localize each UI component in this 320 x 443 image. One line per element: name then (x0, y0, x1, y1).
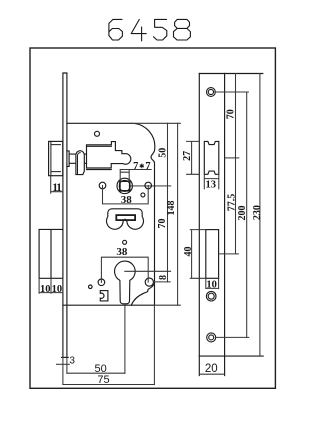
svg-text:10: 10 (40, 284, 51, 295)
svg-text:230: 230 (252, 205, 263, 220)
svg-text:200: 200 (237, 206, 248, 221)
latch bolt head side view (76, 151, 84, 175)
svg-text:70: 70 (157, 219, 168, 229)
latch bolt head bevel line (77, 153, 80, 175)
dim 11 (51, 176, 63, 194)
post above cylinder (123, 240, 127, 244)
euro cylinder profile (115, 261, 136, 304)
latch bolt front view box (49, 141, 63, 175)
svg-text:50: 50 (158, 148, 169, 158)
handle screw hole upper left (99, 182, 106, 189)
spindle hub circles (117, 178, 132, 193)
deadbolt center tick (219, 253, 239, 255)
latch connector stub (67, 151, 87, 167)
dim 20 (199, 373, 224, 375)
dim line 230 (259, 74, 261, 357)
dim 13 (204, 174, 219, 189)
small post right of spindle (141, 193, 145, 197)
hook cutout bottom (100, 291, 108, 301)
svg-text:38: 38 (116, 246, 128, 258)
cylinder centerline tick (125, 270, 171, 272)
cylinder screw hole (206, 291, 216, 301)
latch cutout (204, 141, 219, 174)
latch bolt front view inner lines (51, 141, 61, 175)
svg-text:75: 75 (97, 374, 109, 386)
dim line 200 (246, 92, 248, 337)
case screw post top (95, 131, 100, 136)
faceplate side view (edge bar) (63, 73, 67, 357)
8 dim tick (154, 281, 170, 283)
dim 38 lower (101, 257, 148, 282)
svg-text:10: 10 (206, 280, 217, 291)
svg-text:27: 27 (182, 151, 193, 161)
bottom screw hole (207, 333, 216, 342)
svg-text:38: 38 (121, 194, 133, 206)
spindle centerline (130, 185, 171, 187)
7x7 label line (120, 170, 151, 182)
star of 7x7 label (140, 164, 144, 169)
handle screw hole upper right (145, 182, 152, 189)
dim line 70-77.5 chain (235, 74, 237, 254)
svg-text:8: 8 (158, 275, 169, 280)
svg-text:148: 148 (166, 201, 177, 216)
spring cutout goggles shape (107, 209, 144, 229)
latch bolt arm (87, 142, 131, 168)
drawing frame border (30, 48, 275, 388)
svg-text:70: 70 (226, 109, 237, 119)
svg-text:40: 40 (183, 247, 194, 257)
dim line 50-70-8 chain vertical (167, 123, 169, 282)
dim 3 tick (57, 363, 70, 365)
handle screw hole lower right (145, 278, 153, 286)
left ext lines bottom (63, 304, 154, 385)
deadbolt front view box (39, 229, 63, 278)
top screw hole (207, 88, 216, 97)
latch bolt arm inner lines (87, 146, 112, 169)
bottom screw ext line (215, 336, 248, 338)
dim line 148 vertical (177, 123, 179, 305)
svg-text:20: 20 (205, 363, 218, 375)
svg-text:13: 13 (205, 180, 216, 191)
handle screw hole lower left (98, 279, 105, 286)
svg-text:7: 7 (133, 161, 138, 172)
title 6458 (109, 19, 190, 41)
dim line 50 bottom (67, 372, 125, 374)
top screw ext line (215, 91, 249, 93)
dim ext case top edge to 148 line (132, 122, 181, 124)
svg-text:7: 7 (145, 161, 150, 172)
svg-text:77.5: 77.5 (227, 194, 238, 212)
small post bottom left (89, 285, 93, 289)
dim 27 (187, 141, 200, 174)
spring cutout slot (116, 215, 135, 220)
dim 10 (206, 278, 219, 288)
spindle square hole 7x7 (120, 181, 130, 191)
faceplate front view left edge (198, 74, 200, 376)
svg-text:3: 3 (69, 355, 75, 366)
faceplate bar bottom tick (62, 356, 69, 358)
dim line 75 bottom (63, 384, 154, 386)
latch center tick (225, 157, 239, 159)
case internal bottom-right curve (131, 284, 154, 305)
deadbolt cutout (206, 230, 219, 279)
dim ext case bottom edge (154, 304, 180, 306)
dim 40 (190, 230, 206, 279)
faceplate front view right edge (224, 74, 226, 376)
svg-text:11: 11 (52, 182, 62, 194)
dim 10 10 left ticks (39, 278, 63, 293)
lock case outline (63, 123, 155, 305)
svg-text:10: 10 (52, 284, 63, 295)
faceplate front view bottom edge (199, 355, 263, 357)
faceplate front view top edge (199, 73, 262, 75)
dim 38 upper (103, 186, 149, 204)
